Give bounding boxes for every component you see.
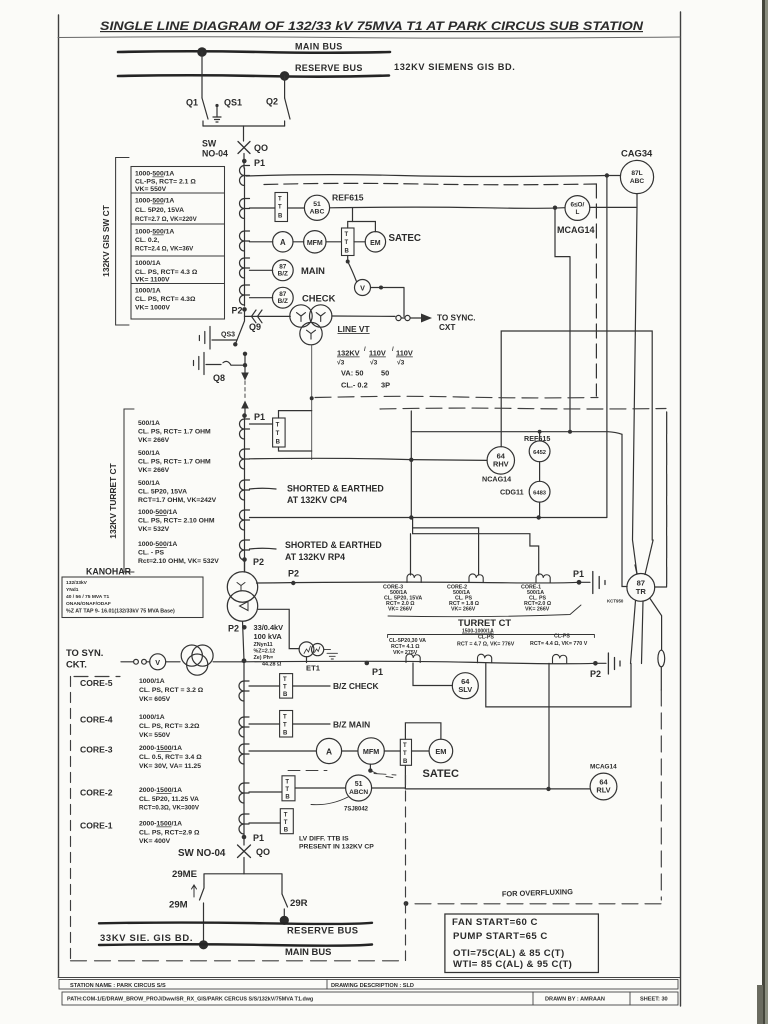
boundary dash left xyxy=(70,677,72,961)
switch 29R xyxy=(282,894,288,907)
svg-text:B: B xyxy=(403,759,408,765)
svg-text:B/Z: B/Z xyxy=(278,298,288,305)
svg-text:CL. 0.5, RCT= 3.4 Ω: CL. 0.5, RCT= 3.4 Ω xyxy=(139,754,202,761)
wire TTB2 to EM xyxy=(354,241,365,243)
vertical from sync net xyxy=(410,411,412,518)
wire TTB to BZ main xyxy=(293,723,330,725)
voltmeter V LV xyxy=(150,654,166,670)
svg-text:P1: P1 xyxy=(573,569,584,579)
svg-text:1000-500/1A: 1000-500/1A xyxy=(135,198,174,205)
svg-text:33/0.4kV: 33/0.4kV xyxy=(254,623,284,632)
svg-text:CL. PS, RCT= 4.3Ω: CL. PS, RCT= 4.3Ω xyxy=(135,296,196,303)
syn line contacts o-o xyxy=(121,661,133,663)
terminal block TTB (SATEC) xyxy=(342,228,355,256)
overbrace lower row xyxy=(388,632,595,638)
svg-text:2000-1500/1A: 2000-1500/1A xyxy=(139,821,182,828)
svg-text:MFM: MFM xyxy=(363,747,379,756)
svg-text:P2: P2 xyxy=(253,557,264,567)
svg-text:PUMP START=65 C: PUMP START=65 C xyxy=(453,931,548,942)
svg-text:CL. 5P20, 15VA: CL. 5P20, 15VA xyxy=(135,207,184,214)
wire V to LVT xyxy=(166,661,180,663)
svg-text:OTI=75C(AL) & 85 C(T): OTI=75C(AL) & 85 C(T) xyxy=(453,948,565,959)
node main bus 33 xyxy=(199,940,208,949)
LV CT bump L1 xyxy=(406,654,420,663)
svg-text:VK= 400V: VK= 400V xyxy=(139,838,171,845)
wire TTB to BZ check xyxy=(293,685,330,687)
tee wire to 29M 29R xyxy=(204,874,282,894)
svg-text:T: T xyxy=(276,423,280,429)
terminal block TTB core1 xyxy=(280,809,293,834)
node CAG34 tap xyxy=(605,173,609,177)
svg-text:87: 87 xyxy=(279,264,287,271)
svg-text:V: V xyxy=(360,284,365,293)
node neutral tap xyxy=(291,581,295,585)
disconnector Q1 xyxy=(202,98,208,119)
svg-text:QS3: QS3 xyxy=(221,332,235,339)
wire reserve bus to Q2 xyxy=(284,76,286,98)
svg-text:T: T xyxy=(403,751,407,757)
boundary dash horizontal second xyxy=(380,407,666,410)
svg-text:MCAG14: MCAG14 xyxy=(590,764,617,771)
svg-text:P2: P2 xyxy=(228,624,239,634)
svg-text:T: T xyxy=(285,787,289,793)
wire 51ABCN to RLV net xyxy=(372,787,406,789)
svg-text:T: T xyxy=(283,677,287,683)
svg-text:44.28 Ω: 44.28 Ω xyxy=(262,662,282,668)
sync line from P2 to VT xyxy=(245,315,291,317)
wire core1 to TTB xyxy=(249,822,280,824)
svg-text:P2: P2 xyxy=(288,569,299,579)
svg-text:132KV GIS SW CT: 132KV GIS SW CT xyxy=(101,204,111,277)
svg-text:T: T xyxy=(345,232,349,238)
wire below VT winding3 xyxy=(311,345,313,460)
svg-text:RLV: RLV xyxy=(596,786,610,795)
LV CT bump L2 xyxy=(478,654,492,663)
svg-text:132/33kV: 132/33kV xyxy=(66,580,88,586)
wire 51ABC to MCAG14 (wavy) xyxy=(330,207,565,208)
terminal block TTB satec LV xyxy=(400,739,411,765)
svg-text:110V: 110V xyxy=(396,349,413,358)
wire N1 riser xyxy=(410,534,412,575)
wire 6452 up to 431 net xyxy=(539,432,541,441)
wire 87TR bottom left drops xyxy=(631,601,644,664)
arrow symbol 29M xyxy=(192,885,197,897)
wire MCAG14 to CAG34 drop xyxy=(590,206,636,208)
node on MCAG14 wire xyxy=(553,206,557,210)
svg-text:YNd1: YNd1 xyxy=(66,587,79,593)
transformer HV winding xyxy=(227,572,257,602)
svg-text:B/Z MAIN: B/Z MAIN xyxy=(333,720,370,730)
wavy pilot wire dashed xyxy=(264,183,596,184)
svg-text:TURRET CT: TURRET CT xyxy=(458,617,511,628)
svg-text:VK= 550V: VK= 550V xyxy=(139,732,171,739)
svg-text:CORE-1: CORE-1 xyxy=(80,821,113,831)
node on RHV wire xyxy=(409,458,413,462)
ammeter A xyxy=(273,232,293,252)
relay 87 B/Z MAIN xyxy=(272,260,293,281)
boundary dash horizontal upper xyxy=(315,396,598,398)
wire down to QO xyxy=(243,126,245,141)
svg-text:40 / 56 / 75 MVA T1: 40 / 56 / 75 MVA T1 xyxy=(66,594,109,600)
earthing transformer ET1 xyxy=(299,642,314,657)
svg-text:FAN START=60 C: FAN START=60 C xyxy=(452,917,538,928)
turret CT symbol T1 xyxy=(240,419,250,439)
svg-text:AT 132KV CP4: AT 132KV CP4 xyxy=(287,495,347,505)
svg-text:87L: 87L xyxy=(631,170,642,177)
svg-text:B: B xyxy=(276,440,281,446)
svg-text:MFM: MFM xyxy=(307,240,323,247)
svg-text:B: B xyxy=(345,249,350,255)
svg-text:29M: 29M xyxy=(169,900,188,911)
node 570 on net 431 xyxy=(568,430,572,434)
svg-text:29R: 29R xyxy=(290,898,308,909)
wire 6483 down to CT4 net xyxy=(539,502,541,515)
svg-text:RCT=2.7 Ω, VK=220V: RCT=2.7 Ω, VK=220V xyxy=(135,216,198,223)
VT ratio fraction text xyxy=(337,347,413,390)
svg-text:33KV SIE. GIS BD.: 33KV SIE. GIS BD. xyxy=(100,932,193,943)
svg-text:Ze) Ph=: Ze) Ph= xyxy=(254,655,274,661)
svg-text:CL. 5P20, 15VA: CL. 5P20, 15VA xyxy=(138,489,187,496)
neutral earth xyxy=(579,581,590,583)
node P1 LV xyxy=(365,661,370,666)
reserve bus 33kV xyxy=(99,923,372,924)
settings box xyxy=(445,914,599,973)
svg-text:SHEET: 30: SHEET: 30 xyxy=(640,997,668,1003)
node CT4-539 xyxy=(537,515,541,519)
svg-text:RCT=0.3Ω, VK=300V: RCT=0.3Ω, VK=300V xyxy=(139,805,200,812)
svg-text:SLV: SLV xyxy=(458,685,472,694)
svg-text:500/1A: 500/1A xyxy=(138,450,160,457)
svg-text:VK= 550V: VK= 550V xyxy=(135,186,167,193)
svg-text:2000-1500/1A: 2000-1500/1A xyxy=(139,745,182,752)
node feeder resume xyxy=(243,352,247,356)
svg-text:VK= 266V: VK= 266V xyxy=(388,607,413,613)
transformer delta mark xyxy=(240,602,249,611)
node P2 xyxy=(242,307,247,312)
svg-text:MAIN BUS: MAIN BUS xyxy=(295,42,343,52)
CT C5 xyxy=(240,285,250,305)
CT spec table box xyxy=(131,167,225,320)
svg-text:EM: EM xyxy=(370,240,381,247)
overflux fuse link xyxy=(658,650,665,667)
svg-text:VK= 605V: VK= 605V xyxy=(139,696,171,703)
bracket 132KV GIS SW CT xyxy=(116,158,129,326)
node P2 LV xyxy=(242,625,247,630)
svg-text:DRAWING DESCRIPTION : SLD: DRAWING DESCRIPTION : SLD xyxy=(331,983,414,989)
horizontal net 431 xyxy=(411,432,622,435)
circuit breaker QO xyxy=(238,142,250,154)
svg-text:Q2: Q2 xyxy=(266,97,278,107)
svg-text:RHV: RHV xyxy=(493,460,509,469)
svg-text:SINGLE LINE DIAGRAM OF 132: SINGLE LINE DIAGRAM OF 132/33 kV 75MVA T… xyxy=(100,19,644,33)
wire node down from 51ABC net xyxy=(555,208,570,432)
sync isolating contacts o-o xyxy=(396,315,401,320)
loop TTB top to EM top xyxy=(405,723,441,740)
wire CT5 row to 87BZ check xyxy=(250,297,273,299)
svg-text:T: T xyxy=(276,431,280,437)
svg-text:SW NO-04: SW NO-04 xyxy=(178,848,226,859)
wire QO to P1 xyxy=(243,154,245,169)
svg-text:1000/1A: 1000/1A xyxy=(139,714,165,721)
wire A to MFM xyxy=(342,750,358,752)
svg-text:B: B xyxy=(283,692,288,698)
bracket 132KV TURRET CT xyxy=(124,409,134,572)
ammeter A LV xyxy=(316,738,341,763)
wire CAG34 down to 87TR xyxy=(633,194,638,574)
wire LVT to LV feeder xyxy=(213,661,242,663)
svg-text:TO SYNC.: TO SYNC. xyxy=(437,314,476,323)
svg-text:B: B xyxy=(283,731,288,737)
svg-text:6≤O/: 6≤O/ xyxy=(570,202,584,209)
svg-text:132KV SIEMENS GIS BD.: 132KV SIEMENS GIS BD. xyxy=(394,62,515,72)
turret CT symbol T4 xyxy=(240,510,250,530)
wire V to node xyxy=(371,287,382,289)
LV CT symbol core1 xyxy=(239,814,249,834)
svg-text:51: 51 xyxy=(313,201,321,208)
LV CT bump L3 xyxy=(553,654,567,663)
svg-text:REF615: REF615 xyxy=(332,193,364,203)
long wire to 64RLV xyxy=(405,788,589,790)
wire L3 riser down xyxy=(548,663,550,789)
svg-text:CXT: CXT xyxy=(439,323,455,332)
footer top line xyxy=(58,977,680,979)
svg-text:SW: SW xyxy=(202,139,217,149)
wire step net 533 xyxy=(413,528,539,575)
wire CT2 to TTB xyxy=(250,207,276,209)
svg-text:PRESENT IN 132KV CP: PRESENT IN 132KV CP xyxy=(299,844,374,851)
shorted tail CT5 xyxy=(250,547,277,550)
relay 51 ABC xyxy=(304,195,329,220)
svg-text:ABC: ABC xyxy=(310,209,325,216)
HV feeder wire P1 down through CTs xyxy=(244,168,246,306)
svg-text:P2: P2 xyxy=(590,669,601,679)
shorted tail CT3 xyxy=(250,487,277,490)
wire top-right into 87TR xyxy=(645,540,653,575)
svg-text:CL. 5P20, 11.25 VA: CL. 5P20, 11.25 VA xyxy=(139,796,199,803)
svg-text:6483: 6483 xyxy=(533,490,547,496)
svg-text:SATEC: SATEC xyxy=(423,768,460,780)
node P1 bottom xyxy=(242,835,247,840)
loop TTB top to EM top xyxy=(348,222,376,232)
svg-text:MCAG14: MCAG14 xyxy=(557,225,595,235)
ET1 bottom tap xyxy=(306,657,308,663)
wire node to V meter xyxy=(348,262,357,282)
svg-text:B/Z: B/Z xyxy=(278,271,288,278)
svg-text:MAIN BUS: MAIN BUS xyxy=(285,946,331,957)
turret CT symbol T2 xyxy=(240,449,250,469)
footer row2 box xyxy=(62,992,678,1005)
node reserve bus 33 xyxy=(280,916,289,925)
wire TTB bottom loop xyxy=(279,447,312,451)
neutral CT bump N1 xyxy=(407,574,421,583)
svg-text:Q8: Q8 xyxy=(213,373,225,383)
wire CT4 row to 87BZ main xyxy=(250,269,273,271)
LV CT symbol core3 xyxy=(239,744,249,764)
svg-text:CAG34: CAG34 xyxy=(621,148,653,159)
boundary dash overflux riser xyxy=(660,690,662,900)
earthing switch QS3 open blade xyxy=(235,316,244,344)
LV feeder down from transformer xyxy=(243,621,245,660)
ET1 earth xyxy=(324,650,338,659)
meter MFM xyxy=(304,231,326,253)
svg-text:VK= 266V: VK= 266V xyxy=(525,607,550,613)
wire core3 to A xyxy=(249,750,316,752)
wire A to MFM xyxy=(293,241,304,243)
wire MFM to TTB xyxy=(384,750,400,752)
svg-text:T: T xyxy=(403,743,407,749)
relay 87 TR xyxy=(627,574,655,602)
boundary dash right of LV section xyxy=(405,775,407,961)
svg-text:500/1A: 500/1A xyxy=(138,420,160,427)
svg-text:CL. PS, RCT= 1.7 OHM: CL. PS, RCT= 1.7 OHM xyxy=(138,459,211,466)
line VT winding 2 xyxy=(310,305,332,327)
curve from 51ABCN xyxy=(311,797,348,805)
svg-text:T: T xyxy=(278,205,282,211)
relay 64 SLV xyxy=(452,673,478,699)
neutral CT bump N2 xyxy=(469,574,483,583)
main bus 132kV xyxy=(118,51,390,53)
relay 6452 xyxy=(529,441,550,462)
border frame right xyxy=(680,12,682,1006)
relay CAG34 87L ABC xyxy=(620,160,653,193)
svg-text:CHECK: CHECK xyxy=(302,293,336,304)
svg-text:CL. PS, RCT=2.9 Ω: CL. PS, RCT=2.9 Ω xyxy=(139,830,200,837)
earth switch QS1 xyxy=(216,107,218,117)
wire turret CT2 to 64RHV (long) xyxy=(250,458,488,460)
wire 6452 to 6483 xyxy=(539,462,541,482)
svg-text:T: T xyxy=(285,780,289,786)
svg-text:CL-PS: CL-PS xyxy=(478,635,494,641)
svg-text:Q9: Q9 xyxy=(249,322,261,332)
svg-text:CL-PS, RCT= 2.1 Ω: CL-PS, RCT= 2.1 Ω xyxy=(135,179,196,186)
svg-text:NCAG14: NCAG14 xyxy=(482,475,511,484)
energy meter EM LV xyxy=(429,739,453,763)
svg-text:CL. PS, RCT= 1.7 OHM: CL. PS, RCT= 1.7 OHM xyxy=(138,429,211,436)
svg-text:RESERVE BUS: RESERVE BUS xyxy=(287,925,358,936)
KANOHAR nameplate xyxy=(62,567,203,618)
neutral CT bump N3 xyxy=(536,574,550,583)
transformer LV winding xyxy=(227,591,257,621)
svg-text:CORE-4: CORE-4 xyxy=(80,715,113,725)
line VT winding 1 xyxy=(290,305,312,327)
node P2 LV end xyxy=(593,661,598,666)
svg-text:1000-500/1A: 1000-500/1A xyxy=(138,541,177,548)
CT C1 xyxy=(240,166,250,186)
svg-text:√3: √3 xyxy=(337,359,345,367)
svg-text:CL. - PS: CL. - PS xyxy=(138,550,165,557)
svg-text:VK= 30V, VA= 11.25: VK= 30V, VA= 11.25 xyxy=(139,763,201,770)
svg-text:VK= 266V: VK= 266V xyxy=(138,437,170,444)
svg-text:NO-04: NO-04 xyxy=(202,149,228,159)
node P1 xyxy=(242,159,247,164)
wire node down to sync line xyxy=(381,288,404,317)
arrow up on feeder xyxy=(241,401,249,409)
svg-text:VK= 1000V: VK= 1000V xyxy=(135,305,170,312)
svg-text:RCT=1.7 OHM, VK=242V: RCT=1.7 OHM, VK=242V xyxy=(138,497,217,504)
node LV syn junction xyxy=(242,658,247,663)
wire 87TR to overflux link xyxy=(650,599,662,651)
svg-text:6452: 6452 xyxy=(533,450,546,456)
svg-text:AT 132KV RP4: AT 132KV RP4 xyxy=(285,552,345,562)
wire main bus to Q1 xyxy=(201,52,203,98)
svg-text:KCT950: KCT950 xyxy=(607,599,624,604)
svg-text:RCT=2.4 Ω, VK=36V: RCT=2.4 Ω, VK=36V xyxy=(135,246,194,253)
svg-text:T: T xyxy=(345,240,349,246)
svg-text:EM: EM xyxy=(435,747,446,756)
terminal block TTB core5 xyxy=(280,674,293,699)
earthing switch Q8 xyxy=(206,361,245,365)
CT C4 xyxy=(240,258,250,278)
svg-text:SHORTED & EARTHED: SHORTED & EARTHED xyxy=(287,484,384,494)
svg-text:1000-500/1A: 1000-500/1A xyxy=(135,171,174,178)
svg-text:P1: P1 xyxy=(253,833,264,843)
reserve bus 132kV xyxy=(118,75,389,76)
svg-text:ABCN: ABCN xyxy=(349,789,368,796)
terminal block TTB core4 xyxy=(280,711,293,738)
wire CT3 row to meters xyxy=(250,241,273,243)
svg-text:T: T xyxy=(283,715,287,721)
svg-text:CL. PS, RCT= 4.3 Ω: CL. PS, RCT= 4.3 Ω xyxy=(135,269,198,276)
svg-text:1000/1A: 1000/1A xyxy=(139,678,165,685)
svg-text:50: 50 xyxy=(381,369,389,378)
CT C3 xyxy=(240,231,250,251)
svg-text:P1: P1 xyxy=(254,412,265,422)
svg-text:132KV: 132KV xyxy=(337,349,360,358)
node: main bus tap xyxy=(197,47,207,57)
node P1 turret xyxy=(242,413,247,418)
svg-text:51: 51 xyxy=(355,781,363,788)
wavy pilot wire solid xyxy=(246,175,607,177)
voltmeter V xyxy=(355,280,371,296)
svg-text:√3: √3 xyxy=(370,359,378,367)
svg-text:TR: TR xyxy=(636,587,647,596)
TTB satec bottom drop xyxy=(404,765,406,789)
circuit breaker QO bottom xyxy=(238,845,251,858)
Q8 earth electrode xyxy=(194,353,205,375)
wire node to CAG34 xyxy=(607,175,620,177)
svg-text:RESERVE BUS: RESERVE BUS xyxy=(295,63,363,73)
node on RLV wire xyxy=(546,787,550,791)
svg-text:A: A xyxy=(280,238,286,247)
svg-text:B: B xyxy=(278,214,283,220)
svg-text:LV DIFF. TTB IS: LV DIFF. TTB IS xyxy=(299,836,349,843)
wire TTB to 51ABCN xyxy=(295,787,346,789)
svg-text:%Z AT TAP 9- 16.01(132/33kV 75: %Z AT TAP 9- 16.01(132/33kV 75 MVA Base) xyxy=(66,609,175,615)
svg-text:%Z=2.12: %Z=2.12 xyxy=(254,649,276,655)
MFM tap down xyxy=(369,764,371,770)
svg-text:CL. PS, RCT = 3.2 Ω: CL. PS, RCT = 3.2 Ω xyxy=(139,687,204,694)
svg-text:B/Z CHECK: B/Z CHECK xyxy=(333,681,379,691)
wire L1 to 64SLV xyxy=(413,663,452,686)
svg-text:P2: P2 xyxy=(232,306,243,316)
svg-text:132KV TURRET CT: 132KV TURRET CT xyxy=(108,462,118,538)
svg-text:CL. 0.2,: CL. 0.2, xyxy=(135,237,159,244)
wire TTB to EM xyxy=(412,750,430,752)
CT C2 xyxy=(240,199,250,219)
arrow down on feeder xyxy=(241,373,249,381)
title underline / frame top line xyxy=(58,37,680,38)
svg-text:QS1: QS1 xyxy=(224,98,242,108)
svg-text:VK= 266V: VK= 266V xyxy=(451,607,476,613)
ET1 feed wire from transformer delta xyxy=(258,609,299,648)
svg-text:SHORTED & EARTHED: SHORTED & EARTHED xyxy=(285,540,382,550)
svg-text:Rct=2.10 OHM, VK= 532V: Rct=2.10 OHM, VK= 532V xyxy=(138,558,219,565)
svg-text:P1: P1 xyxy=(372,667,383,677)
svg-text:CL. PS, RCT= 3.2Ω: CL. PS, RCT= 3.2Ω xyxy=(139,723,200,730)
svg-text:VK= 532V: VK= 532V xyxy=(138,526,170,533)
svg-text:QO: QO xyxy=(254,143,268,153)
svg-text:29ME: 29ME xyxy=(172,869,198,880)
